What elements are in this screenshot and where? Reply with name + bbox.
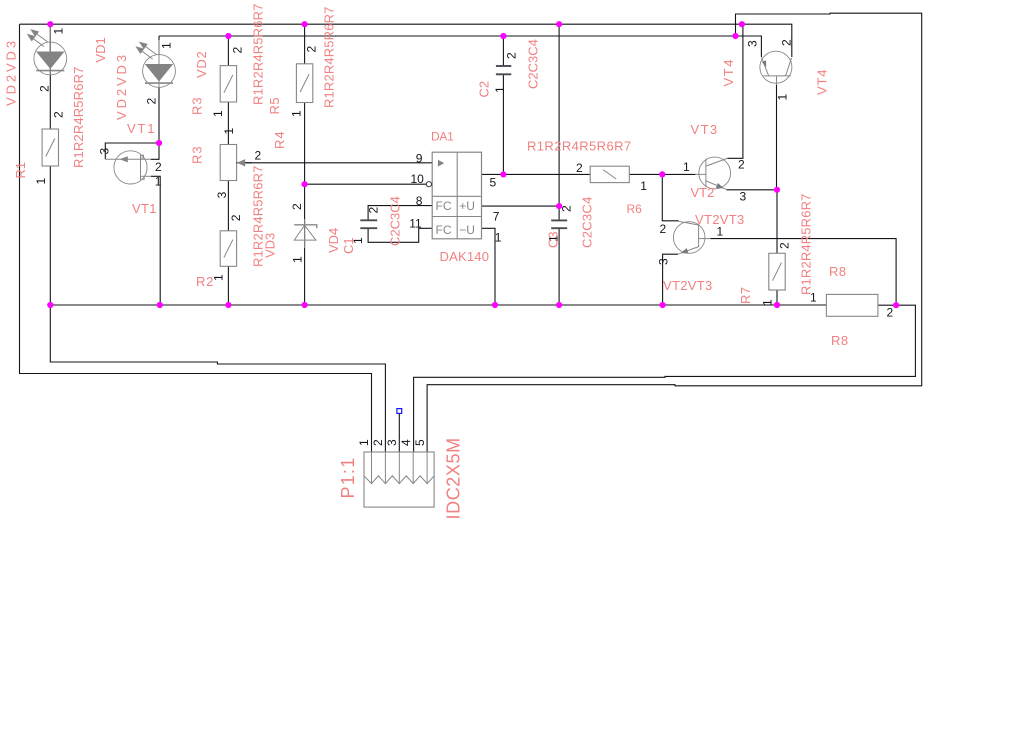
svg-text:C3: C3 [546,231,561,248]
wire VD1 pin1 and R1 column [49,24,51,129]
transistor VT1 [105,151,151,184]
svg-text:VD2: VD2 [194,51,209,78]
junction (662.3,174.4) [659,171,665,177]
junction (228.4,305) [225,302,231,308]
svg-text:1: 1 [52,28,66,35]
wire DA1 -U pin1 to bus [482,228,496,305]
resistor R2 [220,231,236,266]
svg-text:VD3: VD3 [263,233,278,258]
junction (777,189.8) [774,187,780,193]
wire VT2 emitter pin3 to node [727,189,778,191]
svg-text:2: 2 [780,39,794,46]
svg-text:VT2: VT2 [691,185,715,200]
junction (503.4,174.4) [500,171,506,177]
svg-text:1: 1 [761,299,775,306]
LED VD2 [135,40,175,88]
wire R4 wiper to DA1 pin9 [239,162,433,164]
svg-text:VD1: VD1 [93,37,108,62]
capacitor C2 [496,66,511,74]
capacitor C3 [551,220,567,228]
svg-text:2: 2 [576,161,583,175]
junction (50.3,24.2) [47,21,53,27]
svg-text:R3: R3 [190,96,205,115]
diode VD3 zener [294,219,317,248]
wire VT4 emitter pin1 down [776,84,778,190]
svg-text:8: 8 [416,194,423,208]
svg-text:1: 1 [291,256,305,263]
wire VD3 diode column to bus [304,184,306,305]
svg-text:R1R2R4R5R6R7: R1R2R4R5R6R7 [322,6,337,108]
wire node to VT2 base pin1 [662,173,695,175]
svg-text:R5: R5 [267,97,282,115]
svg-text:5: 5 [413,439,427,446]
svg-text:1: 1 [640,179,647,193]
svg-text:2: 2 [371,439,385,446]
svg-text:3: 3 [740,190,747,204]
junction (662.6,305) [660,302,666,308]
junction (777,305) [774,302,780,308]
svg-text:2: 2 [37,85,51,92]
resistor R7 [769,253,785,290]
transistor VT4 [760,51,792,85]
svg-text:2: 2 [887,306,894,320]
svg-text:VT4: VT4 [721,58,736,87]
svg-text:FC: FC [436,199,452,213]
resistor R1 [42,129,58,166]
svg-text:11: 11 [409,217,422,231]
junction (559.1,206.1) [556,203,562,209]
wire R4-R2 link [227,181,229,231]
resistor R6 [590,166,629,182]
wire R5 column top [304,24,306,64]
wire R5 pin1 to node [304,103,306,185]
wire VT3 emitter pin3 to bus [663,254,679,305]
svg-text:C2C3C4: C2C3C4 [580,196,595,248]
svg-text:2: 2 [660,222,667,236]
svg-text:1: 1 [357,439,371,446]
junction (559.1,24.2) [556,21,562,27]
svg-text:R1: R1 [13,162,28,179]
junction (741.9,24.2) [739,21,745,27]
svg-text:VT1: VT1 [132,201,157,216]
junction (304.6,184.2) [302,181,308,187]
junction (304.6,24.2) [302,21,308,27]
LED VD1 [27,28,67,76]
svg-text:3: 3 [385,439,399,446]
op-amp DA1 pin10 inversion bubble [426,182,431,187]
transistor VT3 [673,221,710,253]
wire C3 column from bus1 [558,24,560,220]
svg-text:R2: R2 [196,274,214,289]
svg-text:FC: FC [436,223,452,237]
wire top bus1 +supply [20,23,793,25]
svg-text:2: 2 [560,205,574,212]
wire outer border right loop to connector pin5 [427,13,922,452]
svg-text:3: 3 [657,258,671,265]
junction (495,305) [492,302,498,308]
wire node down to VT3 collector pin2 [662,174,678,220]
wire left border to connector pin1 [20,24,372,452]
junction (735.5,36) [732,33,738,39]
wire VT2 collector pin2 up to bus1 [727,24,743,158]
svg-text:DAK140: DAK140 [440,249,490,264]
svg-text:R4: R4 [272,130,287,149]
wire VT1 collector bend [151,143,159,159]
svg-text:R8: R8 [829,264,847,279]
svg-text:R1R2R4R5R6R7: R1R2R4R5R6R7 [251,3,266,105]
svg-text:C2C3C4: C2C3C4 [526,39,541,89]
resistor R3 [220,66,236,102]
wire R6 pin1 to node [629,173,662,175]
wire R8 pin2 lead [878,304,896,306]
potentiometer R4 [220,145,252,181]
junction (559.1,305) [556,302,562,308]
svg-text:VD2VD3: VD2VD3 [4,38,19,106]
wire VD2 pin1 [158,36,160,55]
connector pin3 no-connect square [397,409,402,414]
svg-text:1: 1 [222,128,236,135]
wire DA1 pin7 lead [482,205,560,207]
junction (503.4,36) [500,33,506,39]
junction (304.6,305) [302,302,308,308]
svg-text:R1R2R4R5R6R7: R1R2R4R5R6R7 [527,139,632,154]
wire R7 pin1 to bus [776,290,778,305]
wire DA1 pin10 lead [305,183,427,185]
svg-text:C2: C2 [477,81,492,98]
wire R2 pin1 to bus [227,266,229,305]
resistor R8 [826,294,878,316]
svg-text:VT2VT3: VT2VT3 [663,278,712,293]
junction (159.8,305) [157,302,163,308]
wire C2 pin1 to pin5 node [502,74,504,174]
wire R8 node to connector pin4 [414,305,916,452]
svg-text:2: 2 [155,160,162,174]
wire top bus2 [159,35,736,37]
svg-text:VT1: VT1 [127,121,156,136]
svg-text:7: 7 [493,210,500,224]
wire R1 pin1 to bottom bus [49,166,51,305]
svg-text:R1R2R4R5R6R7: R1R2R4R5R6R7 [799,193,814,295]
wire connector pin3 no-connect stub [398,414,400,453]
wire C2 pin2 from bus2 [502,36,504,66]
svg-text:2: 2 [305,46,319,53]
svg-text:9: 9 [416,152,423,166]
svg-text:R3: R3 [190,145,205,164]
svg-text:IDC2X5M: IDC2X5M [444,437,464,519]
svg-text:1: 1 [155,174,162,188]
svg-text:2: 2 [231,47,245,54]
svg-text:R6: R6 [627,202,643,216]
svg-text:2: 2 [290,203,304,210]
svg-text:1: 1 [211,110,225,117]
svg-text:2: 2 [229,214,243,221]
svg-text:VD4: VD4 [326,228,341,253]
svg-text:1: 1 [289,110,303,117]
wire VT3 base pin1 to R8 node [711,239,897,306]
svg-text:1: 1 [776,94,790,101]
wire C1 pin1 to DA1 pin11 [368,228,432,242]
junction (228.4,36) [225,33,231,39]
wire VT4 pin2 to bus1 [791,24,793,57]
wire VT1 base bend [105,143,159,159]
op-amp DA1 port labels FC +U -U [436,199,475,237]
wire VT4 pin3 link [736,36,762,57]
svg-text:2: 2 [367,207,381,214]
junction (50.3,305) [47,302,53,308]
svg-text:1: 1 [34,178,48,185]
svg-text:VT3: VT3 [691,122,719,137]
svg-text:2: 2 [145,98,159,105]
svg-text:VT2VT3: VT2VT3 [695,212,744,227]
svg-text:C1: C1 [341,237,356,254]
resistor R5 [296,64,312,103]
wire bottom bus 0V [50,304,826,306]
wire R3 column top [227,36,229,66]
wire VT1 emitter down to bus [151,176,160,305]
svg-text:3: 3 [215,191,229,198]
svg-text:1: 1 [495,231,502,245]
capacitor C1 [360,220,377,228]
svg-text:2: 2 [738,158,745,172]
svg-text:1: 1 [493,86,507,93]
transistor VT2 [695,157,730,190]
wire VD2 pin2 to node [158,88,160,144]
svg-text:2: 2 [505,52,519,59]
wire DA1 pin8 lead to C1 pin2 [368,206,432,221]
svg-text:−U: −U [459,223,475,237]
svg-text:3: 3 [746,40,760,47]
wire bus to connector pin2 [50,305,385,452]
svg-text:3: 3 [98,148,112,155]
svg-text:2: 2 [52,111,66,118]
junction (159.0,143) [156,140,162,146]
svg-text:VD2VD3: VD2VD3 [114,52,129,120]
svg-text:10: 10 [411,172,425,186]
svg-text:P1:1: P1:1 [338,457,358,499]
svg-text:+U: +U [459,199,475,213]
junction (896.1,305.2) [893,302,899,308]
wire R3-R4 link [227,102,229,145]
svg-text:R7: R7 [738,287,753,304]
svg-text:R8: R8 [831,333,849,348]
svg-text:4: 4 [399,439,413,446]
pin number labels [34,28,894,447]
svg-text:5: 5 [490,176,497,190]
op-amp DA1 box [432,152,481,239]
wire C3 pin1 to bus [558,228,560,305]
svg-text:VT4: VT4 [815,69,830,95]
svg-text:C2C3C4: C2C3C4 [388,196,403,246]
svg-text:R1R2R4R5R6R7: R1R2R4R5R6R7 [71,66,86,168]
svg-text:2: 2 [255,149,262,163]
wire DA1 pin5 lead to R6 pin2 [482,173,591,175]
connector P1 IDC2X5M [364,452,434,507]
svg-text:2: 2 [778,242,792,249]
svg-text:1: 1 [160,42,174,49]
svg-text:1: 1 [683,160,690,174]
wire node to R7 pin2 [776,190,778,254]
svg-text:DA1: DA1 [431,130,454,144]
